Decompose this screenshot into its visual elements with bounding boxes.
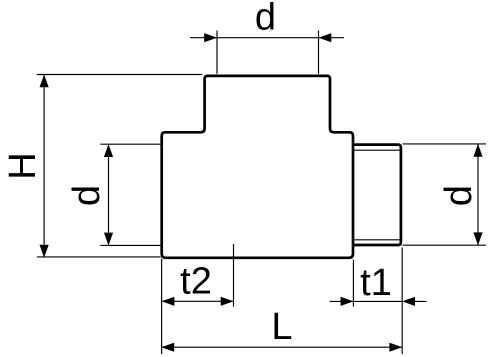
dim t2: dimension line	[162, 300, 234, 302]
dim t2: extension line left	[161, 259, 163, 354]
dim d top: right arrow	[319, 33, 332, 42]
dim d right: bottom arrow	[473, 232, 482, 245]
dim d top: left arrow	[204, 33, 217, 42]
dim L: right arrow	[389, 343, 402, 352]
dim d left: dimension line	[108, 144, 110, 245]
dim t2: extension line right	[233, 244, 235, 307]
svg-text:L: L	[271, 306, 292, 348]
dim t1: left arrow	[341, 297, 354, 306]
svg-text:t2: t2	[180, 260, 212, 302]
dim d top: extension line right	[318, 31, 320, 74]
right threaded spigot	[353, 145, 401, 245]
dim d right: dimension line	[477, 144, 479, 245]
dim t2: right arrow	[221, 297, 234, 306]
thread line top	[354, 149, 400, 151]
svg-text:d: d	[66, 185, 108, 206]
tee top branch with cap	[201, 76, 334, 132]
dim t1: right arrow	[402, 297, 415, 306]
dim d left: top arrow	[104, 144, 113, 157]
thread line bottom	[354, 239, 400, 241]
dim H: top arrow	[40, 75, 49, 88]
dim d top: extension line left	[216, 31, 218, 74]
dim d top: dimension line	[190, 37, 344, 39]
dim H: dimension line	[43, 75, 45, 258]
dim d right: extension line top	[403, 143, 486, 145]
tee body outline	[162, 132, 353, 257]
dim L: left arrow	[161, 343, 174, 352]
dim H: extension line bottom	[37, 256, 161, 258]
svg-text:H: H	[2, 152, 44, 179]
dim t1: extension line right	[401, 248, 403, 355]
dim t1: dimension line with tails	[330, 300, 427, 302]
dim H: bottom arrow	[40, 245, 49, 258]
svg-text:d: d	[438, 185, 480, 206]
dim L: dimension line	[161, 346, 402, 348]
dim d right: top arrow	[473, 144, 482, 157]
dim d left: extension line top	[100, 143, 161, 145]
dim d left: bottom arrow	[104, 233, 113, 246]
dim d left: extension line bottom	[100, 244, 161, 246]
dim d right: extension line bottom	[403, 244, 486, 246]
dim t2: left arrow	[162, 297, 175, 306]
dim H: extension line top	[37, 74, 202, 76]
svg-text:t1: t1	[360, 262, 392, 304]
dim t1: extension line left	[352, 260, 354, 307]
svg-text:d: d	[255, 0, 276, 39]
